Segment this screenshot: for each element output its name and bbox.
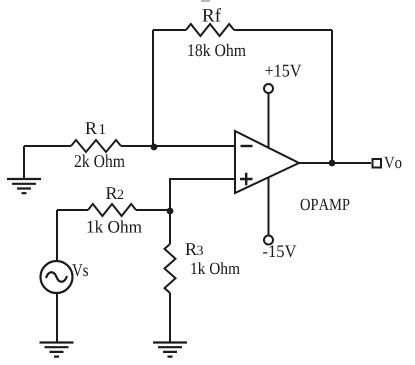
wire feedback top — [153, 29, 332, 31]
wire R3 top — [169, 211, 171, 244]
wire feedback right vertical — [331, 30, 333, 163]
resistor R3 — [165, 244, 176, 293]
label Vo — [384, 157, 401, 168]
terminal Vo square — [373, 159, 382, 168]
label R1 — [86, 122, 106, 134]
value 2k Ohm — [75, 155, 125, 168]
value 1k Ohm R3 — [191, 262, 239, 274]
node inverting junction — [151, 144, 158, 151]
wire ground stub left — [23, 146, 25, 179]
terminal +15V — [264, 84, 273, 93]
wire -15V stub — [268, 178, 270, 236]
resistor R1 — [71, 140, 121, 152]
resistor R2 — [88, 204, 136, 216]
wire feedback left vertical — [152, 30, 154, 147]
wire noninverting input — [170, 179, 235, 210]
ground left — [7, 179, 41, 193]
value 1k Ohm R2 — [88, 220, 142, 232]
ground R3 — [153, 343, 187, 357]
op-amp U1 — [235, 131, 299, 193]
wire Vs top stub — [56, 210, 58, 261]
node output junction — [329, 160, 336, 167]
opamp plus pin — [240, 173, 253, 185]
terminal -15V — [264, 236, 273, 245]
ground Vs — [40, 343, 74, 357]
node noninverting junction — [167, 208, 174, 215]
artifact smudge top — [201, 0, 210, 2]
label -15V — [263, 245, 296, 257]
label R2 — [106, 187, 123, 199]
wire R1 inverting input — [24, 145, 235, 147]
wire R2 — [57, 209, 170, 211]
resistor Rf — [186, 24, 234, 36]
label +15V — [265, 65, 301, 77]
wire R3 bottom — [169, 293, 171, 342]
label Rf — [203, 8, 222, 21]
wire +15V stub — [268, 93, 270, 148]
wire output — [299, 162, 371, 164]
value 18k Ohm — [188, 44, 245, 56]
label R3 — [186, 243, 204, 255]
label Vs — [72, 264, 88, 276]
wire Vs bottom stub — [56, 293, 58, 342]
opamp minus pin — [241, 145, 253, 147]
source Vs — [41, 261, 73, 293]
label OPAMP — [301, 199, 350, 211]
